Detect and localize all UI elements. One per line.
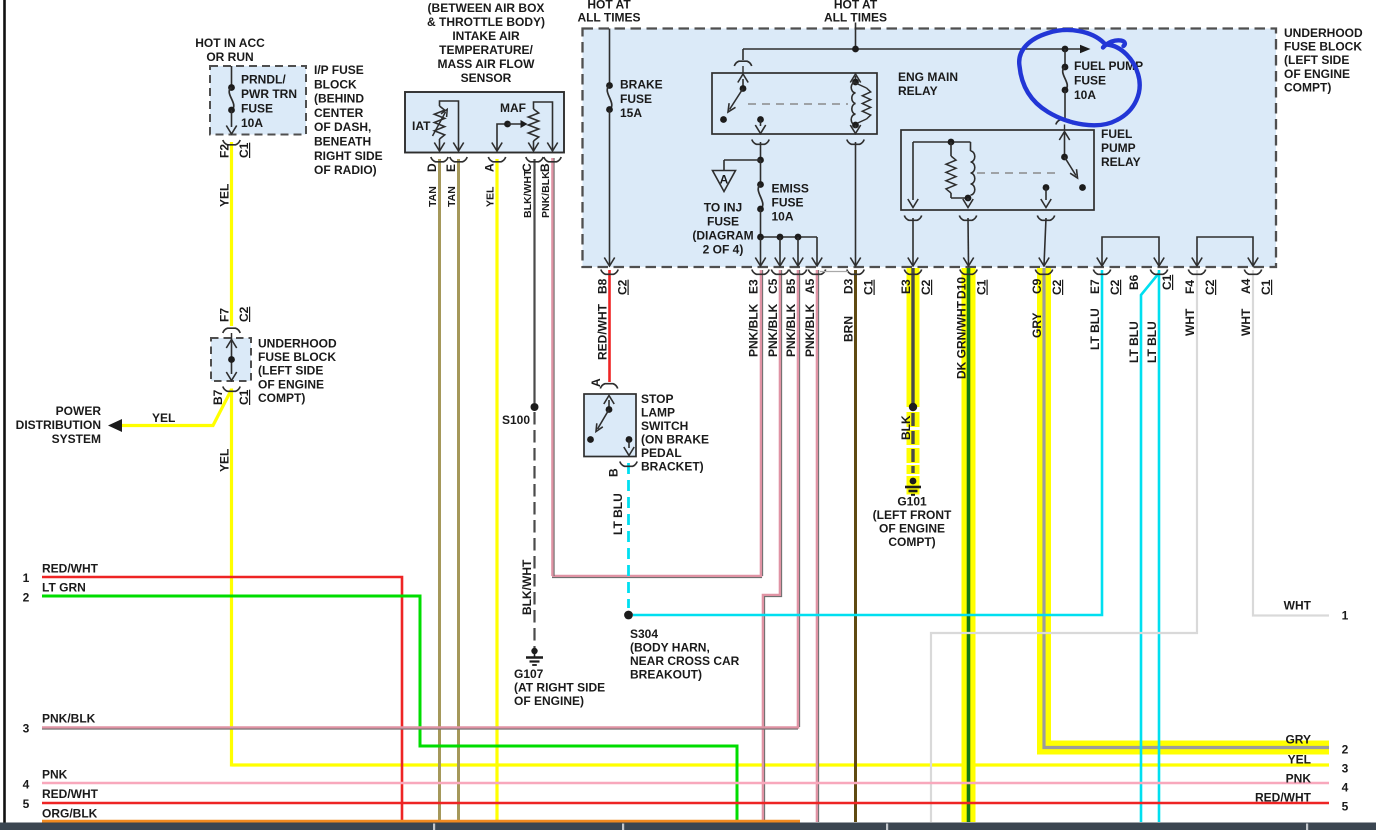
connector B7/C1 xyxy=(223,387,240,392)
svg-text:D: D xyxy=(425,163,439,172)
wire YEL (sensor pin A) xyxy=(495,159,498,822)
wire drop E3 xyxy=(760,237,762,266)
svg-text:YEL: YEL xyxy=(152,411,175,425)
svg-text:OF RADIO): OF RADIO) xyxy=(314,163,377,177)
connector E3/C2 below fuse block xyxy=(904,270,921,275)
connector below eng main relay (switch out) xyxy=(752,140,769,145)
svg-text:C2: C2 xyxy=(1203,279,1217,295)
svg-text:IAT: IAT xyxy=(412,119,431,133)
svg-text:FUSE BLOCK: FUSE BLOCK xyxy=(1284,40,1362,54)
svg-text:A: A xyxy=(483,163,497,172)
svg-text:UNDERHOOD: UNDERHOOD xyxy=(258,337,337,351)
connector below eng main relay (coil) xyxy=(847,140,864,145)
pass-through wire with arrows xyxy=(231,333,233,344)
svg-text:3: 3 xyxy=(1342,762,1349,776)
wire drop A5 xyxy=(816,237,818,266)
bottom window bar xyxy=(0,823,1376,830)
svg-text:RELAY: RELAY xyxy=(1101,155,1141,169)
svg-text:BRN: BRN xyxy=(842,316,856,342)
svg-text:C1: C1 xyxy=(237,142,251,158)
svg-text:LT BLU: LT BLU xyxy=(611,493,625,535)
connector bar A5-D3 xyxy=(820,271,848,273)
fuel pump relay switch xyxy=(1059,132,1069,141)
connector A5 below fuse block xyxy=(808,270,825,275)
svg-text:C1: C1 xyxy=(237,389,251,405)
svg-text:INTAKE AIR: INTAKE AIR xyxy=(452,29,520,43)
svg-text:HOT IN ACC: HOT IN ACC xyxy=(195,36,265,50)
svg-text:PEDAL: PEDAL xyxy=(641,446,682,460)
wire TAN (sensor pin E) xyxy=(457,159,460,822)
svg-text:C9: C9 xyxy=(1030,278,1044,294)
svg-text:TO INJ: TO INJ xyxy=(704,201,742,215)
stop lamp switch contacts xyxy=(608,400,610,409)
svg-text:E7: E7 xyxy=(1088,279,1102,294)
svg-text:OF ENGINE: OF ENGINE xyxy=(1284,67,1350,81)
svg-text:GRY: GRY xyxy=(1030,312,1044,338)
svg-text:STOP: STOP xyxy=(641,392,673,406)
svg-text:B5: B5 xyxy=(784,278,798,294)
svg-text:OR RUN: OR RUN xyxy=(206,50,253,64)
left window border xyxy=(3,0,6,823)
wire: hot at all times feed xyxy=(855,23,857,50)
svg-text:BLK: BLK xyxy=(899,415,913,440)
svg-text:(AT RIGHT SIDE: (AT RIGHT SIDE xyxy=(514,681,605,695)
fuel pump relay coil (resistor+winding) xyxy=(950,142,952,156)
svg-text:BRACKET): BRACKET) xyxy=(641,460,704,474)
svg-text:RED/WHT: RED/WHT xyxy=(596,303,610,360)
svg-text:OF ENGINE: OF ENGINE xyxy=(258,377,324,391)
svg-text:C2: C2 xyxy=(1108,279,1122,295)
svg-text:PNK: PNK xyxy=(1286,772,1312,786)
connector E7/C2 below fuse block xyxy=(1093,270,1110,275)
svg-text:(DIAGRAM: (DIAGRAM xyxy=(692,229,753,243)
wire: hot feed down to brake fuse xyxy=(609,29,611,86)
connector C5 below fuse block xyxy=(771,270,788,275)
jumper wire E7 to C1 xyxy=(1102,237,1159,265)
svg-text:C1: C1 xyxy=(975,279,989,295)
svg-text:C1: C1 xyxy=(1259,279,1273,295)
svg-text:MASS AIR FLOW: MASS AIR FLOW xyxy=(438,57,536,71)
bar separator xyxy=(433,824,435,830)
connector F2/C1 xyxy=(223,140,240,145)
connector D3/C1 below fuse block xyxy=(847,270,864,275)
connector sensor pin A xyxy=(488,157,505,162)
svg-text:A4: A4 xyxy=(1239,278,1253,294)
fuel pump relay coil feed xyxy=(913,141,971,143)
svg-text:D10: D10 xyxy=(955,277,969,299)
wire drop B5 xyxy=(797,237,799,266)
relay U1 ENG MAIN RELAY (box) xyxy=(712,73,877,134)
svg-text:WHT: WHT xyxy=(1183,308,1197,336)
arrow to power distribution system xyxy=(108,419,122,432)
svg-text:4: 4 xyxy=(1342,781,1349,795)
svg-text:C2: C2 xyxy=(616,279,630,295)
svg-text:ENG MAIN: ENG MAIN xyxy=(898,70,958,84)
svg-text:(LEFT SIDE: (LEFT SIDE xyxy=(258,364,323,378)
highlighted wire GRY C9 to circuit 2 xyxy=(1037,268,1051,755)
svg-text:5: 5 xyxy=(23,797,30,811)
switch STOP LAMP SWITCH (box) xyxy=(584,394,636,457)
wire WHT A4 to circuit 1 xyxy=(1253,270,1329,616)
svg-text:(LEFT FRONT: (LEFT FRONT xyxy=(873,508,952,522)
connector C9/C2 below fuse block xyxy=(1035,270,1052,275)
svg-text:RED/WHT: RED/WHT xyxy=(1255,791,1312,805)
wire PNK/BLK A5 xyxy=(816,270,819,822)
svg-text:BLK/WHT: BLK/WHT xyxy=(520,559,534,615)
MAF wiper xyxy=(497,124,508,150)
svg-text:BREAKOUT): BREAKOUT) xyxy=(630,668,702,682)
highlighted wire BLK E3 to splice xyxy=(907,268,920,407)
highlighted wire DK GRN/WHT D10 xyxy=(962,268,976,822)
svg-text:C1: C1 xyxy=(1160,274,1174,290)
underhood fuse block (dashed outline box) xyxy=(583,29,1277,268)
svg-text:SYSTEM: SYSTEM xyxy=(52,432,101,446)
svg-text:TEMPERATURE/: TEMPERATURE/ xyxy=(439,43,533,57)
svg-text:10A: 10A xyxy=(1074,88,1096,102)
svg-text:MAF: MAF xyxy=(500,101,526,115)
svg-text:B: B xyxy=(538,163,552,172)
svg-text:COMPT): COMPT) xyxy=(1284,80,1331,94)
svg-text:(BEHIND: (BEHIND xyxy=(314,92,364,106)
svg-text:GRY: GRY xyxy=(1285,733,1311,747)
svg-text:PWR TRN: PWR TRN xyxy=(241,87,297,101)
svg-text:CENTER: CENTER xyxy=(314,106,364,120)
svg-text:C1: C1 xyxy=(862,279,876,295)
circuit 3 wire PNK/BLK xyxy=(42,726,798,729)
svg-text:NEAR CROSS CAR: NEAR CROSS CAR xyxy=(630,654,740,668)
svg-text:LT BLU: LT BLU xyxy=(1145,321,1159,363)
svg-text:DISTRIBUTION: DISTRIBUTION xyxy=(16,418,101,432)
connector B5 below fuse block xyxy=(789,270,806,275)
circuit 5 wire RED/WHT xyxy=(42,802,1329,804)
svg-text:OF ENGINE): OF ENGINE) xyxy=(514,694,584,708)
dashed BLK/WHT wire S100 to G107 xyxy=(533,412,535,648)
wire PNK/BLK E3 to MAF sensor pin B xyxy=(760,270,763,577)
svg-text:2: 2 xyxy=(1342,743,1349,757)
connector into eng main relay xyxy=(734,61,751,66)
svg-text:1: 1 xyxy=(1342,609,1349,623)
connector sensor pin B xyxy=(544,157,561,162)
wire: brake fuse to connector B8 xyxy=(609,110,611,266)
fuel pump relay output contact xyxy=(1043,184,1050,191)
junction node xyxy=(852,46,859,53)
svg-text:BENEATH: BENEATH xyxy=(314,135,371,149)
svg-text:B8: B8 xyxy=(596,278,610,294)
ground G101 xyxy=(907,476,920,495)
svg-text:B: B xyxy=(607,468,621,477)
splice S304 xyxy=(624,611,633,620)
svg-text:YEL: YEL xyxy=(485,186,497,207)
svg-text:F4: F4 xyxy=(1183,280,1197,294)
connector B (stop lamp switch) xyxy=(620,462,637,467)
svg-text:WHT: WHT xyxy=(1284,599,1312,613)
svg-text:& THROTTLE BODY): & THROTTLE BODY) xyxy=(427,15,545,29)
wire TAN (sensor pin D) xyxy=(438,159,441,822)
svg-text:LT BLU: LT BLU xyxy=(1088,308,1102,350)
svg-text:WHT: WHT xyxy=(1239,308,1253,336)
svg-text:S304: S304 xyxy=(630,627,658,641)
svg-text:B6: B6 xyxy=(1127,274,1141,290)
svg-text:YEL: YEL xyxy=(218,184,232,207)
bar separator xyxy=(886,824,888,830)
svg-text:RELAY: RELAY xyxy=(898,84,938,98)
wire YEL B7 down xyxy=(230,389,233,767)
svg-text:C2: C2 xyxy=(237,306,251,322)
svg-text:5: 5 xyxy=(1342,800,1349,814)
connector sensor pin E xyxy=(450,157,467,162)
svg-text:(ON BRAKE: (ON BRAKE xyxy=(641,433,709,447)
svg-text:G101: G101 xyxy=(897,495,927,509)
junction node xyxy=(757,157,764,164)
wire PNK/BLK B5 to circuit 3 xyxy=(797,270,800,729)
svg-text:FUSE BLOCK: FUSE BLOCK xyxy=(258,350,336,364)
connector F4/C2 below fuse block xyxy=(1188,270,1205,275)
svg-text:RED/WHT: RED/WHT xyxy=(42,562,99,576)
svg-text:PNK/BLK: PNK/BLK xyxy=(42,712,96,726)
svg-text:BLOCK: BLOCK xyxy=(314,77,357,91)
svg-text:LT BLU: LT BLU xyxy=(1127,321,1141,363)
circuit 1 wire RED/WHT xyxy=(42,577,402,822)
svg-text:C2: C2 xyxy=(919,279,933,295)
svg-text:TAN: TAN xyxy=(446,186,458,207)
junction node xyxy=(1062,46,1069,53)
annotation: blue pen circle around fuel pump fuse xyxy=(1019,30,1139,125)
relay U2 FUEL PUMP RELAY (box) xyxy=(901,130,1094,210)
connector A4/C1 below fuse block xyxy=(1244,270,1261,275)
wire LT BLU E7 to S304 xyxy=(633,270,1102,615)
svg-text:A5: A5 xyxy=(803,278,817,294)
circuit 4 wire PNK xyxy=(42,782,1329,785)
svg-text:E: E xyxy=(444,164,458,172)
svg-text:10A: 10A xyxy=(241,116,263,130)
svg-text:(BODY HARN,: (BODY HARN, xyxy=(630,641,710,655)
wire PNK/BLK (riser to sensor B) xyxy=(551,158,554,576)
I/P fuse block (dashed box) xyxy=(210,66,306,135)
dashed wire LT BLU stop lamp to S304 xyxy=(627,463,630,608)
svg-text:E3: E3 xyxy=(899,279,913,294)
wire: branch to injector fuse reference xyxy=(724,159,761,161)
jumper wire F4 to A4 xyxy=(1197,237,1253,265)
connector C1 (lt blu pair) xyxy=(1150,270,1167,275)
svg-text:B7: B7 xyxy=(211,389,225,405)
svg-text:FUEL: FUEL xyxy=(1101,127,1132,141)
connector E3 below fuse block xyxy=(752,270,769,275)
fuse BRAKE FUSE 15A xyxy=(606,82,613,89)
svg-text:YEL: YEL xyxy=(1288,753,1311,767)
svg-text:PNK/BLK: PNK/BLK xyxy=(803,303,817,357)
svg-text:FUSE: FUSE xyxy=(620,92,652,106)
svg-text:2 OF 4): 2 OF 4) xyxy=(703,243,744,257)
svg-text:SENSOR: SENSOR xyxy=(461,71,512,85)
svg-text:SWITCH: SWITCH xyxy=(641,419,688,433)
svg-text:2: 2 xyxy=(23,591,30,605)
svg-text:15A: 15A xyxy=(620,106,642,120)
connector D10/C1 below fuse block xyxy=(960,270,977,275)
svg-text:C2: C2 xyxy=(1050,279,1064,295)
svg-text:ORG/BLK: ORG/BLK xyxy=(42,807,98,821)
relay internal dashed link xyxy=(977,172,1058,174)
svg-text:PNK/BLK: PNK/BLK xyxy=(784,303,798,357)
svg-text:YEL: YEL xyxy=(218,449,232,472)
svg-text:(LEFT SIDE: (LEFT SIDE xyxy=(1284,53,1349,67)
bar separator xyxy=(1306,824,1308,830)
bar separator xyxy=(622,824,624,830)
svg-text:OF ENGINE: OF ENGINE xyxy=(879,522,945,536)
eng main relay coil xyxy=(850,74,860,83)
svg-text:PNK/BLK: PNK/BLK xyxy=(766,303,780,357)
svg-text:FUSE: FUSE xyxy=(241,102,273,116)
wire BLK/WHT (sensor pin C) to S100 xyxy=(533,159,535,403)
connector below relay pin C9 xyxy=(1037,216,1054,221)
wire: branch down to eng main relay xyxy=(742,49,744,60)
svg-text:RED/WHT: RED/WHT xyxy=(42,787,99,801)
svg-text:FUSE: FUSE xyxy=(707,215,739,229)
svg-text:TAN: TAN xyxy=(427,186,439,207)
relay internal dashed link xyxy=(748,103,848,105)
wire YEL bottom run to circuit 3 xyxy=(232,763,1330,766)
svg-text:PNK: PNK xyxy=(42,768,68,782)
svg-text:1: 1 xyxy=(23,571,30,585)
svg-text:A: A xyxy=(720,173,729,187)
sensor box (IAT / MAF) xyxy=(405,92,564,153)
svg-text:4: 4 xyxy=(23,778,30,792)
connector below relay pin D10 xyxy=(959,216,976,221)
wire LT BLU B6 jog xyxy=(1141,273,1159,822)
wire RED/WHT B8 to stop lamp switch xyxy=(608,270,611,382)
fuse PRNDL/PWR TRN FUSE 10A xyxy=(231,66,233,87)
wire PNK/BLK (horizontal run) xyxy=(552,575,762,578)
svg-text:COMPT): COMPT) xyxy=(258,391,305,405)
svg-text:FUSE: FUSE xyxy=(772,196,804,210)
svg-text:F7: F7 xyxy=(218,308,232,322)
connector into fuel pump relay xyxy=(1056,120,1073,125)
wire drop C5 xyxy=(779,237,781,266)
svg-text:PNK/BLK: PNK/BLK xyxy=(540,171,552,218)
wire PNK/BLK C5 with jog xyxy=(763,270,780,822)
svg-text:3: 3 xyxy=(23,722,30,736)
svg-text:F2: F2 xyxy=(218,144,232,158)
svg-text:ALL TIMES: ALL TIMES xyxy=(824,11,887,25)
svg-text:E3: E3 xyxy=(747,279,761,294)
svg-text:FUSE: FUSE xyxy=(1074,74,1106,88)
ground G107 xyxy=(531,648,537,654)
svg-text:D3: D3 xyxy=(842,278,856,294)
IAT variable arrow xyxy=(433,112,446,136)
splice (BLK to G101) xyxy=(909,403,917,411)
wire WHT F4 xyxy=(931,270,1197,822)
svg-text:PRNDL/: PRNDL/ xyxy=(241,73,286,87)
svg-text:(BETWEEN AIR BOX: (BETWEEN AIR BOX xyxy=(428,1,545,15)
svg-text:10A: 10A xyxy=(772,210,794,224)
svg-text:G107: G107 xyxy=(514,667,544,681)
wire LT BLU C1 straight xyxy=(1158,270,1161,822)
svg-text:I/P FUSE: I/P FUSE xyxy=(314,63,364,77)
connector sensor pin D xyxy=(431,157,448,162)
svg-text:EMISS: EMISS xyxy=(772,182,809,196)
connector sensor pin C xyxy=(526,157,543,162)
svg-text:S100: S100 xyxy=(502,413,530,427)
svg-text:LAMP: LAMP xyxy=(641,406,675,420)
fuse EMISS FUSE 10A xyxy=(760,160,762,184)
svg-text:LT GRN: LT GRN xyxy=(42,581,86,595)
svg-text:ALL TIMES: ALL TIMES xyxy=(577,11,640,25)
connector B8/C2 below fuse block xyxy=(601,270,618,275)
fuse FUEL PUMP FUSE 10A xyxy=(1064,49,1066,67)
wire: relay coil to D3 xyxy=(855,142,857,266)
svg-text:DK GRN/WHT: DK GRN/WHT xyxy=(955,300,969,379)
eng main relay switch output contact xyxy=(757,116,764,123)
svg-text:POWER: POWER xyxy=(56,404,102,418)
underhood fuse block pass-through (dashed box) xyxy=(211,338,251,381)
wire: bus to relays and fuel pump fuse xyxy=(743,48,1082,50)
connector below relay pin E3 xyxy=(904,216,921,221)
svg-text:PUMP: PUMP xyxy=(1101,141,1136,155)
svg-text:OF DASH,: OF DASH, xyxy=(314,120,371,134)
circuit 2 wire LT GRN xyxy=(42,596,737,822)
wire: emiss fuse to splice bus xyxy=(760,209,762,237)
svg-text:BRAKE: BRAKE xyxy=(620,78,663,92)
wire YEL branch to power distribution xyxy=(120,390,232,426)
svg-text:PNK/BLK: PNK/BLK xyxy=(747,303,761,357)
svg-text:RIGHT SIDE: RIGHT SIDE xyxy=(314,149,383,163)
dashed BLK wire to G101 xyxy=(907,412,920,427)
circuit 6 wire ORG/BLK xyxy=(42,820,800,823)
wire BRN D3 xyxy=(854,270,857,822)
wire to emiss fuse junction xyxy=(760,142,762,160)
eng main relay switch xyxy=(742,79,744,88)
svg-text:BLK/WHT: BLK/WHT xyxy=(522,169,534,218)
svg-text:C5: C5 xyxy=(766,278,780,294)
wire YEL F2 to underhood fuse block xyxy=(230,142,233,326)
splice S100 xyxy=(531,403,539,411)
reference triangle A (to inj fuse) xyxy=(713,171,736,192)
svg-text:UNDERHOOD: UNDERHOOD xyxy=(1284,26,1363,40)
svg-text:COMPT): COMPT) xyxy=(888,535,935,549)
splice bus for PNK/BLK feeds xyxy=(761,236,818,238)
